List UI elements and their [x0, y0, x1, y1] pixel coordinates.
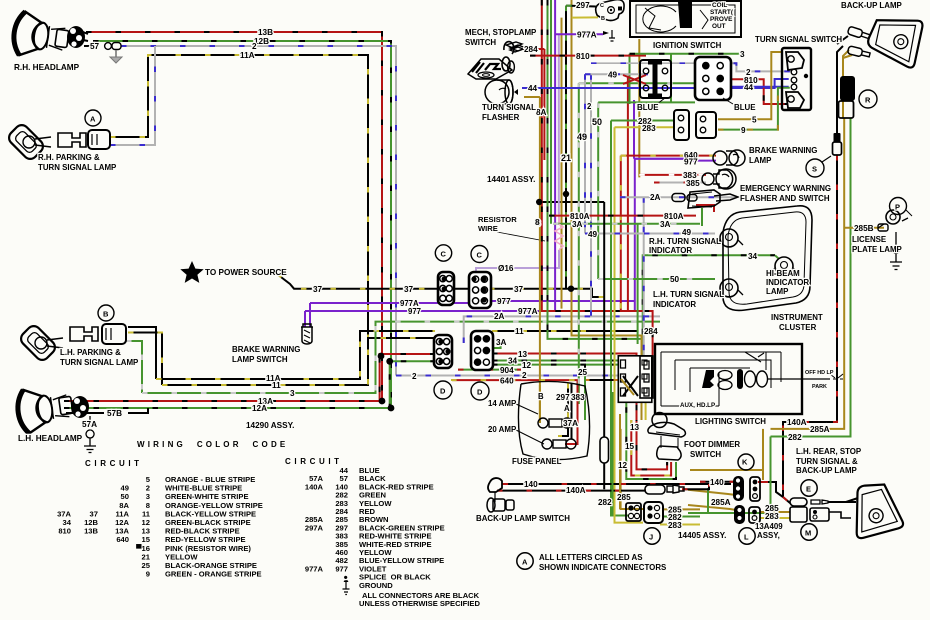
svg-text:49: 49: [588, 230, 598, 239]
svg-text:57A: 57A: [82, 420, 97, 429]
svg-text:140: 140: [710, 478, 724, 487]
svg-text:L.H. TURN SIGNAL: L.H. TURN SIGNAL: [653, 290, 724, 299]
svg-text:CIRCUIT: CIRCUIT: [285, 457, 343, 466]
svg-text:CIRCUIT: CIRCUIT: [85, 459, 143, 468]
svg-text:BACK-UP LAMP: BACK-UP LAMP: [841, 1, 902, 10]
svg-text:RESISTOR: RESISTOR: [478, 215, 517, 224]
svg-text:977A: 977A: [518, 307, 538, 316]
svg-text:2: 2: [252, 42, 257, 51]
svg-text:COIL: COIL: [712, 2, 727, 9]
svg-text:C: C: [600, 3, 604, 9]
svg-text:11A: 11A: [240, 51, 255, 60]
svg-text:TURN SIGNAL: TURN SIGNAL: [482, 103, 536, 112]
svg-text:AUX, HD.LP: AUX, HD.LP: [680, 402, 715, 409]
svg-text:J: J: [649, 533, 653, 542]
svg-text:282: 282: [788, 433, 802, 442]
svg-text:TURN SIGNAL SWITCH: TURN SIGNAL SWITCH: [755, 35, 842, 44]
svg-text:PLATE LAMP: PLATE LAMP: [852, 245, 902, 254]
svg-text:284: 284: [524, 45, 538, 54]
svg-text:140A: 140A: [305, 482, 324, 491]
svg-text:50: 50: [592, 117, 602, 127]
svg-text:297A: 297A: [305, 523, 324, 532]
svg-text:BRAKE WARNING: BRAKE WARNING: [749, 146, 817, 155]
svg-text:D: D: [477, 388, 483, 397]
svg-text:49: 49: [608, 71, 618, 80]
svg-text:FLASHER: FLASHER: [482, 113, 520, 122]
svg-text:BRAKE WARNING: BRAKE WARNING: [232, 345, 300, 354]
svg-text:977: 977: [684, 158, 698, 167]
svg-text:BACK-UP LAMP: BACK-UP LAMP: [796, 466, 857, 475]
svg-text:640: 640: [116, 535, 129, 544]
svg-text:C: C: [477, 251, 483, 260]
svg-text:977A: 977A: [577, 31, 597, 40]
svg-text:E: E: [806, 485, 811, 494]
svg-text:LAMP SWITCH: LAMP SWITCH: [232, 355, 288, 364]
svg-text:34: 34: [748, 252, 758, 261]
svg-text:50: 50: [670, 275, 680, 284]
svg-text:ASSY,: ASSY,: [757, 531, 780, 540]
svg-text:34: 34: [508, 357, 518, 366]
svg-text:57: 57: [90, 42, 100, 51]
svg-text:285: 285: [617, 493, 631, 502]
svg-text:977A: 977A: [305, 564, 324, 573]
svg-text:R.H. TURN SIGNAL: R.H. TURN SIGNAL: [649, 237, 721, 246]
svg-text:57B: 57B: [107, 409, 122, 418]
svg-text:TURN SIGNAL LAMP: TURN SIGNAL LAMP: [38, 163, 116, 172]
svg-text:ALL LETTERS CIRCLED AS: ALL LETTERS CIRCLED AS: [539, 553, 642, 562]
svg-text:K: K: [742, 458, 748, 467]
svg-text:L.H. HEADLAMP: L.H. HEADLAMP: [18, 434, 83, 443]
svg-text:44: 44: [528, 84, 538, 93]
svg-text:INDICATOR: INDICATOR: [649, 246, 692, 255]
svg-text:49: 49: [577, 132, 587, 142]
svg-text:140A: 140A: [566, 486, 586, 495]
svg-text:LAMP: LAMP: [766, 287, 788, 296]
svg-text:LICENSE: LICENSE: [852, 235, 886, 244]
svg-text:D: D: [440, 387, 446, 396]
svg-text:L: L: [744, 533, 749, 542]
svg-text:M: M: [805, 529, 811, 538]
svg-text:140A: 140A: [787, 418, 807, 427]
svg-text:TURN SIGNAL LAMP: TURN SIGNAL LAMP: [60, 358, 138, 367]
svg-text:S: S: [812, 165, 817, 174]
svg-text:PARK: PARK: [812, 384, 827, 390]
svg-text:5: 5: [752, 116, 757, 125]
svg-text:14 AMP: 14 AMP: [488, 399, 516, 408]
svg-text:3A: 3A: [572, 220, 583, 229]
svg-text:●: ●: [343, 573, 348, 582]
svg-text:3A: 3A: [496, 338, 507, 347]
svg-text:INDICATOR: INDICATOR: [653, 300, 696, 309]
svg-text:810: 810: [744, 76, 758, 85]
svg-text:285A: 285A: [810, 425, 830, 434]
svg-text:20 AMP: 20 AMP: [488, 425, 516, 434]
svg-text:BLUE: BLUE: [637, 103, 658, 112]
svg-text:14405 ASSY.: 14405 ASSY.: [678, 531, 726, 540]
svg-text:2A: 2A: [494, 312, 505, 321]
svg-text:HI-BEAM: HI-BEAM: [766, 269, 800, 278]
svg-text:SWITCH: SWITCH: [690, 450, 721, 459]
svg-text:640: 640: [500, 377, 514, 386]
svg-text:LAMP: LAMP: [749, 156, 771, 165]
svg-text:B: B: [601, 16, 605, 22]
svg-text:977: 977: [497, 297, 511, 306]
svg-text:9: 9: [741, 126, 746, 135]
svg-text:3A: 3A: [660, 220, 671, 229]
svg-text:285A: 285A: [711, 498, 731, 507]
svg-text:11: 11: [272, 381, 281, 390]
svg-text:UNLESS OTHERWISE SPECIFIED: UNLESS OTHERWISE SPECIFIED: [359, 599, 480, 608]
svg-text:385: 385: [686, 179, 700, 188]
svg-text:37: 37: [404, 285, 414, 294]
svg-text:37: 37: [514, 285, 524, 294]
svg-text:297: 297: [556, 393, 570, 402]
svg-text:LIGHTING SWITCH: LIGHTING SWITCH: [695, 417, 766, 426]
svg-text:12: 12: [618, 461, 628, 470]
svg-text:WIRE: WIRE: [478, 224, 498, 233]
svg-text:L.H. PARKING &: L.H. PARKING &: [60, 348, 121, 357]
svg-text:283: 283: [765, 512, 779, 521]
svg-text:21: 21: [561, 153, 571, 163]
svg-text:IGNITION SWITCH: IGNITION SWITCH: [653, 41, 722, 50]
svg-text:14401 ASSY.: 14401 ASSY.: [487, 175, 535, 184]
svg-text:297: 297: [576, 1, 590, 10]
svg-text:284: 284: [644, 327, 658, 336]
svg-text:383: 383: [571, 393, 585, 402]
svg-text:A: A: [90, 115, 96, 124]
svg-text:9: 9: [146, 570, 150, 579]
svg-text:2: 2: [412, 372, 417, 381]
svg-text:C: C: [441, 250, 447, 259]
svg-text:MECH, STOPLAMP: MECH, STOPLAMP: [465, 28, 536, 37]
svg-text:OUT: OUT: [712, 23, 726, 30]
svg-text:49: 49: [682, 228, 692, 237]
svg-text:2A: 2A: [650, 193, 661, 202]
svg-text:15: 15: [625, 442, 635, 451]
svg-text:FUSE PANEL: FUSE PANEL: [512, 457, 562, 466]
svg-text:FOOT DIMMER: FOOT DIMMER: [684, 440, 740, 449]
svg-text:Ø16: Ø16: [498, 264, 514, 273]
svg-text:R.H. PARKING &: R.H. PARKING &: [38, 153, 100, 162]
svg-text:14290 ASSY.: 14290 ASSY.: [246, 421, 294, 430]
svg-text:B: B: [103, 310, 109, 319]
svg-text:BLUE: BLUE: [734, 103, 755, 112]
svg-text:R.H. HEADLAMP: R.H. HEADLAMP: [14, 63, 80, 72]
svg-text:12: 12: [522, 361, 532, 370]
svg-text:8: 8: [535, 217, 540, 227]
svg-text:37: 37: [313, 285, 323, 294]
svg-text:13: 13: [518, 350, 528, 359]
svg-text:SWITCH: SWITCH: [465, 38, 496, 47]
svg-text:283: 283: [642, 124, 656, 133]
svg-text:25: 25: [578, 368, 588, 377]
svg-text:810: 810: [58, 527, 71, 536]
svg-text:3: 3: [740, 50, 745, 59]
svg-text:OFF HD LP: OFF HD LP: [805, 370, 834, 376]
svg-text:WIRING COLOR CODE: WIRING COLOR CODE: [137, 440, 288, 449]
svg-text:FLASHER AND SWITCH: FLASHER AND SWITCH: [740, 194, 830, 203]
svg-text:GROUND: GROUND: [359, 581, 393, 590]
svg-text:R: R: [865, 96, 871, 105]
svg-text:283: 283: [668, 521, 682, 530]
svg-text:INSTRUMENT: INSTRUMENT: [771, 313, 823, 322]
svg-text:GREEN - ORANGE STRIPE: GREEN - ORANGE STRIPE: [165, 570, 262, 579]
svg-text:13: 13: [630, 423, 640, 432]
svg-text:2: 2: [522, 371, 527, 380]
svg-text:13A409: 13A409: [755, 522, 783, 531]
svg-text:12A: 12A: [252, 404, 267, 413]
svg-text:A: A: [564, 404, 570, 413]
svg-text:BACK-UP LAMP SWITCH: BACK-UP LAMP SWITCH: [476, 514, 570, 523]
svg-text:B: B: [538, 392, 544, 401]
svg-text:SHOWN INDICATE CONNECTORS: SHOWN INDICATE CONNECTORS: [539, 563, 666, 572]
svg-text:8A: 8A: [536, 108, 547, 117]
svg-text:37A: 37A: [563, 419, 578, 428]
svg-text:977: 977: [408, 307, 421, 316]
svg-text:A: A: [522, 558, 528, 567]
svg-text:EMERGENCY WARNING: EMERGENCY WARNING: [740, 184, 831, 193]
svg-text:285B: 285B: [854, 224, 874, 233]
svg-text:810: 810: [576, 52, 590, 61]
svg-text:L.H. REAR, STOP: L.H. REAR, STOP: [796, 447, 861, 456]
svg-text:INDICATOR: INDICATOR: [766, 278, 809, 287]
svg-text:140: 140: [524, 480, 538, 489]
svg-text:13B: 13B: [84, 527, 98, 536]
svg-text:TO POWER SOURCE: TO POWER SOURCE: [205, 268, 287, 277]
svg-text:13B: 13B: [258, 28, 273, 37]
svg-text:PROVE: PROVE: [710, 16, 733, 23]
svg-text:CLUSTER: CLUSTER: [779, 323, 817, 332]
svg-text:3: 3: [290, 389, 295, 398]
svg-text:TURN SIGNAL &: TURN SIGNAL &: [796, 457, 858, 466]
svg-text:P: P: [895, 203, 900, 212]
svg-text:904: 904: [500, 366, 514, 375]
svg-text:2: 2: [587, 102, 592, 111]
svg-text:START(: START(: [710, 9, 734, 16]
svg-text:282: 282: [598, 498, 612, 507]
svg-text:11: 11: [515, 327, 524, 336]
